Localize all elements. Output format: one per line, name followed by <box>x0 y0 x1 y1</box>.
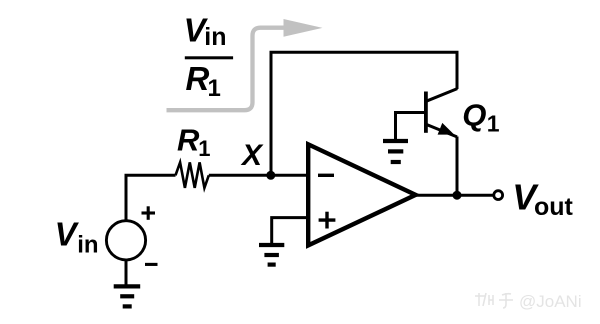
wire: feedback from node X to Q1 collector <box>271 52 457 175</box>
watermark 知乎 @JoANi <box>475 293 513 308</box>
ground (Q1 base) <box>383 141 408 162</box>
Q1 emitter lead <box>426 124 457 137</box>
node X (junction dot) <box>266 171 275 180</box>
source - polarity <box>145 263 158 266</box>
Vout terminal (open circle) <box>494 191 503 200</box>
svg-text:out: out <box>534 193 574 221</box>
voltage source Vin <box>106 221 145 260</box>
svg-text:V: V <box>55 216 80 253</box>
transistor Q1 <box>426 89 457 137</box>
op-amp plus marking <box>319 212 336 229</box>
resistor R1 <box>176 162 209 188</box>
op-amp U1 <box>308 144 415 245</box>
Q1 base bar <box>424 92 428 133</box>
ground (op-amp + input) <box>259 245 284 265</box>
output node (junction dot) <box>453 191 462 200</box>
wire: Q1 base to ground <box>396 113 425 140</box>
svg-text:in: in <box>77 231 98 258</box>
svg-text:in: in <box>204 23 226 51</box>
wire: non-inverting input to ground <box>272 218 308 244</box>
svg-text:X: X <box>240 139 264 172</box>
svg-text:1: 1 <box>198 136 210 161</box>
wire: resistor to op-amp inverting input <box>209 174 308 177</box>
current-flow arrowhead (gray) <box>284 19 323 37</box>
label Vin/R1 (current value) <box>184 11 234 102</box>
wire: Vin source up to resistor <box>126 175 176 221</box>
svg-text:@JoANi: @JoANi <box>519 292 582 311</box>
source + polarity <box>142 206 156 220</box>
svg-text:1: 1 <box>208 75 221 102</box>
op-amp minus marking <box>318 174 334 177</box>
wire: op-amp output to Vout terminal <box>416 194 493 197</box>
current-flow arrow (gray) <box>167 28 285 111</box>
svg-text:R: R <box>177 123 200 158</box>
ground (source) <box>114 286 141 306</box>
wire: source to ground <box>125 260 128 285</box>
svg-text:Q: Q <box>462 97 486 132</box>
wire: Q1 emitter down to output node <box>456 137 459 196</box>
Q1 emitter arrow <box>438 123 455 135</box>
Q1 collector lead <box>426 89 457 102</box>
svg-text:1: 1 <box>487 111 500 137</box>
svg-text:R: R <box>186 60 210 97</box>
